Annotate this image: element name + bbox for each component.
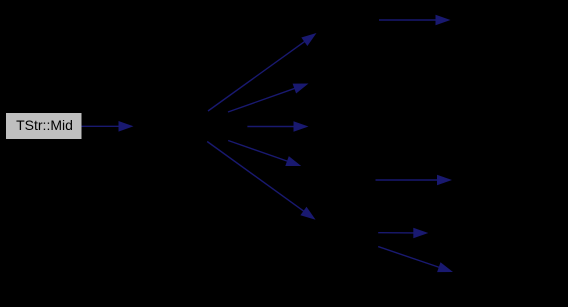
edge node3 to node8 (top right horizontal) bbox=[379, 15, 451, 25]
edge node2 to node3 (steep up) bbox=[208, 33, 317, 111]
edge node2 to node4 (shallow up) bbox=[228, 84, 309, 113]
edge node7 to node10 (bottom horizontal) bbox=[378, 228, 428, 239]
edge node2 to node5 (horizontal) bbox=[247, 121, 308, 132]
edge node2 to node7 (steep down) bbox=[207, 142, 315, 220]
edge node7 to node9 (mid right horizontal) bbox=[376, 175, 453, 185]
edge TStr::Mid to node2 bbox=[82, 121, 134, 132]
svg-text:TStr::Mid: TStr::Mid bbox=[16, 117, 73, 133]
edge node2 to node6 (shallow down) bbox=[228, 141, 301, 167]
node TStr::Mid bbox=[6, 113, 82, 139]
edge node7 to node11 (bottom diagonal) bbox=[378, 247, 453, 273]
